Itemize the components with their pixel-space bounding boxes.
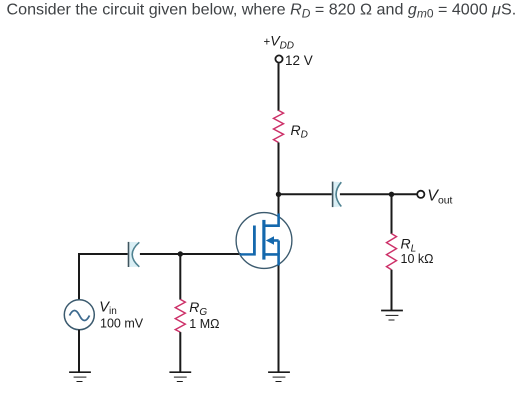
resistor RD [274, 110, 284, 142]
resistor RG [175, 299, 185, 332]
channel bar [262, 220, 265, 260]
body line [272, 239, 279, 242]
ground (source) [268, 372, 290, 381]
transistor Q1 (MOSFET) body circle [236, 213, 292, 269]
wire Vin bottom [78, 330, 80, 372]
wire RG top [179, 254, 181, 300]
ground (RG) [169, 372, 191, 381]
svg-text:100 mV: 100 mV [100, 317, 144, 331]
resistor RL [387, 234, 397, 270]
wire Vin top [78, 253, 80, 300]
node +VDD terminal [275, 55, 282, 62]
wire MOSFET source to ground [278, 264, 280, 373]
svg-text:10 kΩ: 10 kΩ [401, 252, 434, 266]
wire RD to drain node and MOSFET [278, 143, 280, 217]
wire output line right segment [340, 193, 417, 195]
wire VDD to RD [278, 63, 280, 111]
wire RL to ground [391, 270, 393, 311]
source Vin (sine source) [64, 300, 94, 330]
gate bar [253, 226, 256, 256]
wire input line right segment [140, 253, 241, 255]
arrowhead (body, pointing left) [266, 236, 274, 245]
node gate junction [178, 251, 183, 256]
ground (Vin) [69, 372, 91, 381]
drain lead [265, 214, 279, 226]
svg-text:12 V: 12 V [285, 53, 313, 68]
wire output line left segment [278, 193, 332, 195]
body-source vertical [277, 241, 280, 255]
transistor Q1 internal symbol [240, 214, 279, 266]
gate lead [240, 253, 253, 255]
ground (RL) [381, 311, 403, 321]
capacitor C1 (input) [129, 242, 140, 267]
capacitor C2 (output) [333, 182, 342, 208]
wire Vout node to RL [391, 194, 393, 234]
svg-text:1 MΩ: 1 MΩ [189, 317, 219, 331]
wire RG to ground [179, 332, 181, 372]
node drain junction [276, 192, 281, 197]
node Vout terminal [417, 191, 424, 198]
source lead [265, 254, 279, 265]
svg-text:Consider the circuit given bel: Consider the circuit given below, where … [7, 1, 517, 21]
node RL junction [389, 192, 394, 197]
wire input line left segment [79, 253, 128, 255]
